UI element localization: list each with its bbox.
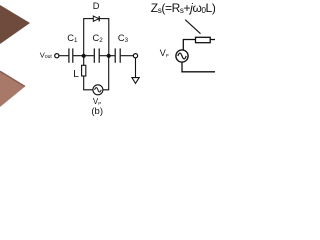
wire: C3 to right terminal [121, 55, 134, 57]
wire: junction1 down to inductor [83, 56, 85, 66]
wire: inductor to bottom corner [84, 76, 93, 90]
photo fragment: dark edge on light arrow [0, 71, 25, 86]
terminal right (open circle) [133, 54, 137, 58]
svg-text:L: L [73, 69, 79, 80]
inductor L (box) [82, 65, 86, 76]
terminal Vout (open circle) [55, 54, 59, 58]
node junction C1-C2 [82, 54, 86, 58]
wire: resistor to right edge [210, 39, 215, 41]
resistor Rs (box) [196, 37, 211, 42]
source Vp (right circuit) [176, 50, 188, 62]
pointer line from Zs label to resistor [185, 20, 200, 34]
capacitor C2 [94, 48, 99, 62]
svg-text:Zs(=Rs+jω0L): Zs(=Rs+jω0L) [151, 1, 215, 15]
photo fragment: dark brown arrow top-left [0, 5, 30, 44]
wire: bottom rail to right edge [181, 71, 215, 73]
node junction C2-C3 [107, 54, 111, 58]
capacitor C3 [115, 48, 120, 62]
wire: source to bottom rail [181, 62, 183, 72]
wire: right terminal down to ground [135, 58, 137, 78]
photo fragment: light brown arrow bottom-left [0, 71, 25, 107]
wire: top-left corner to resistor [183, 40, 195, 51]
wire: C2 to C3 [100, 55, 115, 57]
ground [132, 78, 139, 84]
capacitor C1 [69, 48, 73, 62]
source Vp (left circuit) [93, 85, 103, 95]
wire: top rail left vertical [83, 19, 85, 56]
wire: C1 to C2 [73, 55, 94, 57]
wire: Vp to right vertical, up to junction2 [103, 56, 109, 90]
wire: top rail right vertical [108, 19, 110, 56]
diode D [93, 16, 99, 21]
svg-text:(b): (b) [91, 106, 103, 117]
wire: Vout terminal to C1 [59, 55, 69, 57]
svg-text:D: D [93, 1, 100, 11]
wire: diode cathode to top rail right [99, 18, 109, 20]
wire: top rail to diode anode [83, 18, 93, 20]
